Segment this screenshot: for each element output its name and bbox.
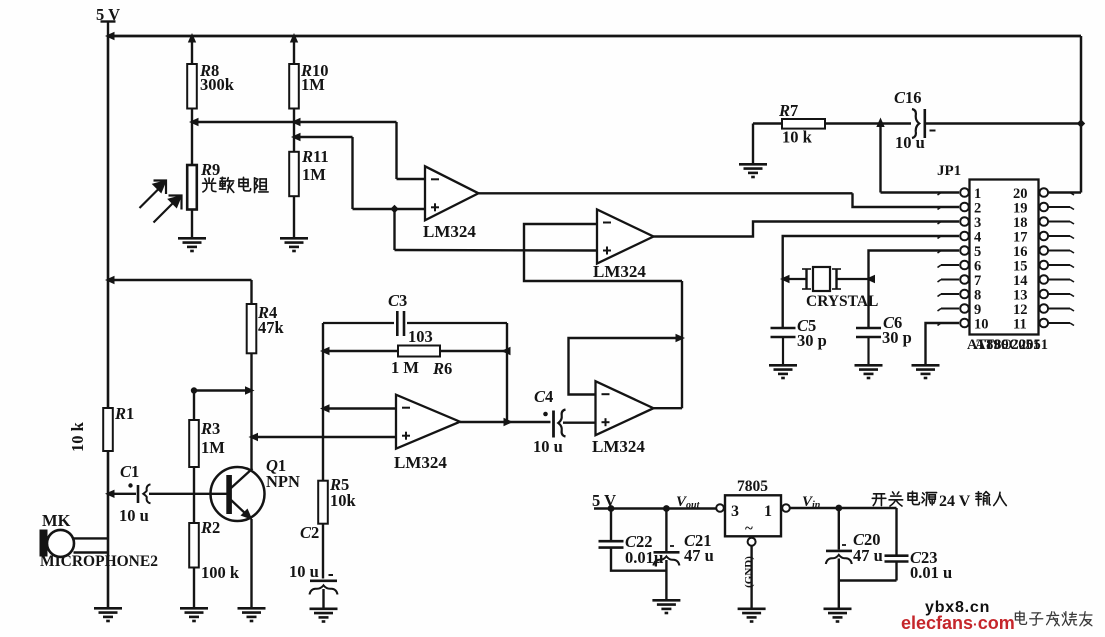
wire opamp2 minus to buffer output [524, 224, 682, 281]
svg-text:47 u: 47 u [853, 546, 883, 565]
junction R6 right [501, 347, 511, 355]
svg-text:C1: C1 [120, 462, 139, 481]
wire C23 top lead [895, 508, 897, 555]
svg-text:R11: R11 [301, 147, 329, 166]
photoresistor arrow 2 [154, 196, 182, 223]
JP1 pin 16 stub and circle [1040, 246, 1075, 255]
ground under R2 [180, 608, 208, 621]
svg-text:10 k: 10 k [68, 421, 87, 452]
svg-text:LM324: LM324 [423, 222, 476, 241]
resistor R6 [398, 346, 440, 357]
svg-text:30 p: 30 p [882, 328, 912, 347]
junction opamp3 minus tap [320, 404, 330, 412]
label shuru [976, 492, 1006, 506]
capacitor C22 [599, 541, 624, 547]
C4 polarity mark [543, 412, 548, 417]
JP1 pin 3 stub and circle [938, 217, 969, 226]
wire R8 top lead [191, 36, 193, 64]
resistor R11 [289, 152, 299, 196]
svg-text:CRYSTAL: CRYSTAL [806, 293, 878, 310]
wire 7805 gnd lead [750, 546, 752, 608]
wire R10 top lead [293, 36, 295, 64]
junction crystal left [780, 275, 790, 283]
ground under 7805 [738, 609, 766, 622]
svg-text:1M: 1M [302, 165, 326, 184]
ground under C6 [855, 365, 883, 378]
label guangmin dianzu [203, 177, 269, 192]
wire JP1 pin5 to crystal right [869, 251, 960, 328]
wire Q1 collector [250, 391, 252, 470]
label kaiguan dianyuan [872, 491, 936, 506]
wire opamp3 output to C4 [460, 421, 551, 423]
wire C20 to ground [838, 559, 840, 608]
svg-text:~: ~ [745, 521, 753, 537]
svg-text:11: 11 [1013, 317, 1027, 333]
svg-text:47k: 47k [258, 318, 285, 337]
capacitor C2 [310, 581, 338, 595]
wire vertical to opamp1 minus [395, 122, 397, 179]
resistor R7 [782, 119, 825, 129]
svg-text:10 u: 10 u [289, 562, 319, 581]
wire vertical to opamp1 plus [351, 137, 353, 209]
wire R6 left lead [323, 350, 398, 352]
ground under mic rail [94, 608, 122, 621]
op-amp U1D LM324 [592, 381, 654, 456]
wire down to JP1 pin1 [879, 124, 881, 193]
wire R7 left to ground [752, 124, 754, 164]
wire to JP1 pin1 [881, 191, 960, 193]
svg-text:10: 10 [974, 317, 989, 333]
transistor Q1 [211, 467, 265, 521]
JP1 pin 14 stub and circle [1040, 275, 1075, 284]
JP1 pin 18 stub and circle [1040, 217, 1075, 226]
svg-text:(GND): (GND) [743, 556, 755, 588]
junction feedback buffer [676, 334, 686, 342]
junction R8 R9 [189, 118, 199, 126]
wire JP1 pin4 to crystal left [783, 236, 959, 328]
crystal Y1 [783, 267, 869, 291]
ground under C21 [652, 600, 680, 613]
wire 5V tick [107, 22, 109, 37]
JP1 pin 4 stub and circle [938, 232, 969, 241]
svg-text:10k: 10k [330, 491, 357, 510]
svg-text:10 u: 10 u [895, 133, 925, 152]
junction R10 R11 node [291, 133, 301, 141]
JP1 pin 11 stub and circle [1040, 319, 1075, 328]
capacitor C4 [554, 410, 566, 438]
svg-text:JP1: JP1 [937, 163, 961, 179]
wire R8 bottom lead [191, 109, 193, 123]
op-amp U1B LM324 [593, 210, 654, 282]
junction right rail C16 [1077, 119, 1085, 127]
wire C22 bottom [611, 548, 666, 571]
wire R3 to R2 [193, 467, 195, 523]
svg-text:MICROPHONE2: MICROPHONE2 [40, 553, 158, 570]
junction R4 collector [245, 386, 255, 394]
ground under JP1 pin10 [912, 365, 940, 378]
junction collector tap [249, 433, 259, 441]
wire down to opamp2 plus run [393, 209, 395, 250]
wire JP1 pin20 to rail [1049, 191, 1081, 193]
svg-text:0.01µ: 0.01µ [625, 548, 664, 567]
svg-text:10 u: 10 u [119, 506, 149, 525]
ground under R7 [739, 164, 767, 177]
svg-text:C16: C16 [894, 88, 922, 107]
capacitor C21 [653, 552, 679, 565]
wire JP1 pin10 to ground [926, 323, 960, 364]
svg-text:C4: C4 [534, 387, 553, 406]
wire Q1 emitter [250, 519, 252, 607]
svg-text:100 k: 100 k [201, 563, 240, 582]
microphone MK [40, 530, 75, 557]
wire feedback right vertical [506, 323, 508, 422]
svg-text:LM324: LM324 [593, 262, 646, 281]
wire C21 to ground [665, 560, 667, 599]
svg-text:R1: R1 [114, 404, 134, 423]
wire R5 to C2 [322, 524, 324, 579]
svg-text:R9: R9 [200, 160, 220, 179]
svg-text:R3: R3 [200, 419, 220, 438]
wire opamp4 feedback [569, 338, 683, 395]
svg-text:LM324: LM324 [394, 453, 447, 472]
svg-text:1: 1 [764, 503, 772, 520]
wire R7 left lead [753, 122, 782, 124]
svg-text:1M: 1M [201, 438, 225, 457]
svg-text:10 u: 10 u [533, 437, 563, 456]
svg-text:C3: C3 [388, 291, 407, 310]
svg-text:47 u: 47 u [684, 546, 714, 565]
ground under C20 [824, 609, 852, 622]
wire mic top to rail [74, 537, 109, 539]
junction mark R10 at node wire [291, 118, 301, 126]
wire R2 bottom lead [193, 568, 195, 608]
wire collector to opamp3 plus [252, 436, 397, 438]
op-amp U1C LM324 [394, 395, 460, 472]
wire rail to R4 [108, 279, 252, 281]
wire left rail [107, 36, 110, 607]
ground under R9 [178, 238, 206, 251]
JP1 pin 20 stub and circle [1040, 188, 1075, 197]
resistor R4 [247, 304, 257, 353]
wire opamp2 output to JP1 pin3 [654, 222, 960, 237]
svg-text:0.01 u: 0.01 u [910, 563, 952, 582]
C20 polarity mark [842, 544, 846, 546]
wire R3 top lead [193, 391, 195, 421]
JP1 pin 10 stub and circle [938, 319, 969, 328]
wire opamp1 minus input [397, 178, 426, 180]
capacitor C6 [856, 328, 881, 364]
resistor R1 [103, 408, 113, 451]
C2 polarity mark [329, 574, 334, 576]
junction feedback output [504, 418, 514, 426]
svg-text:103: 103 [408, 327, 433, 346]
ground under C5 [769, 365, 797, 378]
wire R11 bottom lead [293, 196, 295, 237]
capacitor C16 [912, 109, 925, 138]
resistor R9 photoresistor [187, 165, 197, 210]
JP1 pin 7 stub and circle [938, 275, 969, 284]
op-amp U1A LM324 [423, 166, 479, 241]
svg-text:LM324: LM324 [592, 437, 645, 456]
wire feedback left vertical [322, 323, 324, 481]
wire opamp3 minus input [323, 407, 396, 409]
5V terminal bar [101, 20, 116, 22]
wire C23 bottom lead [895, 562, 897, 581]
svg-text:7805: 7805 [737, 478, 768, 495]
junction R10 rail [290, 33, 298, 43]
wire R10 to R11 [293, 109, 295, 152]
wire 7805 pin1 to C23 [790, 507, 897, 509]
svg-text:MK: MK [42, 511, 71, 530]
junction rail corner [105, 32, 115, 40]
wire opamp1 output to JP1 pin2 [853, 193, 960, 207]
photoresistor arrow 1 [140, 181, 167, 209]
wire buffer output vertical [681, 281, 683, 408]
svg-text:24 V: 24 V [939, 493, 971, 510]
wire R10R11 node right [294, 136, 353, 138]
ground under Q1 [238, 608, 266, 621]
svg-text:R2: R2 [200, 518, 220, 537]
wire C22 top lead [610, 509, 612, 541]
wire R7 to C16 [825, 122, 911, 124]
wire opamp1 output [479, 192, 853, 194]
capacitor C20 [826, 551, 852, 564]
wire right rail vertical [1080, 36, 1083, 193]
svg-text:1 M: 1 M [391, 358, 419, 377]
wire R6 right lead [440, 350, 507, 352]
wire opamp1 plus input [353, 208, 426, 210]
svg-text:elecfans·com: elecfans·com [901, 613, 1015, 633]
capacitor C1 [138, 484, 151, 503]
ground under R11 [280, 238, 308, 251]
wire 5V to 7805 pin3 [594, 507, 716, 509]
C21 polarity mark [670, 545, 674, 547]
junction R3 top [191, 387, 197, 393]
junction C20 top [835, 505, 842, 512]
resistor R10 [289, 64, 299, 109]
JP1 pin 12 stub and circle [1040, 304, 1075, 313]
watermark dianzi fashaoyou [1015, 611, 1092, 626]
resistor R2 [189, 523, 199, 568]
svg-text:R7: R7 [778, 101, 798, 120]
wire C20 C23 bottoms [839, 579, 897, 581]
svg-text:AT89C2051: AT89C2051 [975, 337, 1048, 353]
capacitor C23 [885, 556, 909, 562]
junction crystal right [866, 275, 876, 283]
wire C1 to Q1 base [149, 493, 227, 495]
wire to opamp2 plus input [395, 249, 598, 252]
JP1 pin 1 stub and circle [938, 188, 969, 197]
svg-text:R6: R6 [432, 359, 452, 378]
svg-text:300k: 300k [200, 75, 235, 94]
svg-text:30 p: 30 p [797, 331, 827, 350]
JP1 pin 8 stub and circle [938, 290, 969, 299]
wire C20 top lead [838, 508, 840, 550]
svg-text:3: 3 [731, 503, 739, 520]
junction C16 tap [876, 118, 884, 128]
resistor R5 [318, 481, 328, 524]
wire rail to C1 [108, 493, 136, 495]
JP1 pin 15 stub and circle [1040, 261, 1075, 270]
ground under C2 [310, 609, 338, 622]
junction rail C1 [105, 490, 115, 498]
C16 polarity mark [930, 130, 936, 132]
capacitor C5 [771, 328, 796, 364]
JP1 pin 6 stub and circle [938, 261, 969, 270]
svg-text:1M: 1M [301, 75, 325, 94]
capacitor C3 [323, 311, 507, 336]
wire R4 to R3 node [194, 389, 252, 391]
JP1 pin 9 stub and circle [938, 304, 969, 313]
svg-text:10 k: 10 k [782, 128, 813, 147]
junction C21 top [663, 505, 670, 512]
wire R8R9 node to opamp1 minus [192, 121, 397, 123]
junction R8 rail [188, 33, 196, 43]
wire R4 bottom lead [250, 353, 252, 390]
wire mic bottom to rail [74, 551, 109, 553]
JP1 pin 19 stub and circle [1040, 203, 1075, 212]
JP1 pin 17 stub and circle [1040, 232, 1075, 241]
svg-text:C2: C2 [300, 523, 319, 542]
wire C16 to right rail [926, 122, 1081, 124]
svg-text:NPN: NPN [266, 472, 300, 491]
C1 polarity mark [128, 483, 132, 487]
wire C2 to ground [322, 589, 324, 608]
wire R9 bottom lead [191, 210, 193, 238]
junction opamp1 plus tap [390, 205, 398, 213]
JP1 pin 5 stub and circle [938, 246, 969, 255]
voltage regulator U2 7805 [716, 495, 790, 545]
wire opamp4 output [654, 407, 683, 409]
junction rail R4 [105, 276, 115, 284]
JP1 pin 13 stub and circle [1040, 290, 1075, 299]
wire R9 top lead [191, 122, 193, 165]
resistor R3 [189, 420, 199, 467]
connector JP1 body [970, 180, 1039, 335]
junction R6 left [320, 347, 330, 355]
resistor R8 [187, 64, 197, 109]
wire C4 to opamp4 plus [563, 422, 596, 424]
wire R4 top lead [250, 280, 252, 304]
JP1 pin 2 stub and circle [938, 203, 969, 212]
junction C22 top [608, 505, 615, 512]
wire C21 top lead [665, 509, 667, 552]
wire top 5V rail [108, 35, 1081, 38]
